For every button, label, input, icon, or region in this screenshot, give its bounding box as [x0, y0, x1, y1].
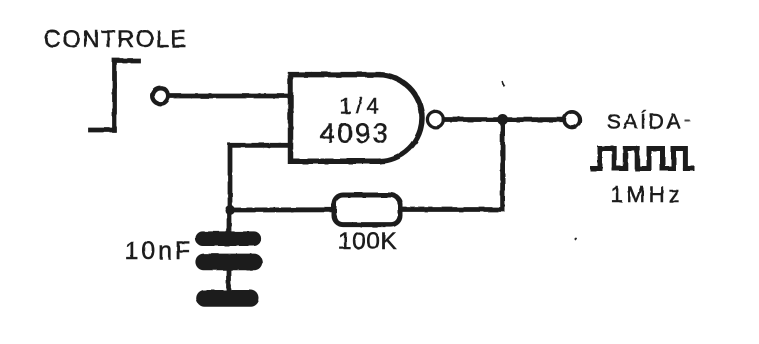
svg-text:10nF: 10nF: [125, 237, 194, 265]
svg-text:4093: 4093: [320, 118, 391, 149]
svg-text:100K: 100K: [338, 228, 397, 255]
svg-text:1MHz: 1MHz: [611, 182, 684, 207]
svg-text:SAÍDA: SAÍDA: [607, 111, 684, 134]
svg-text:CONTROLE: CONTROLE: [44, 26, 188, 53]
svg-text:1/4: 1/4: [340, 94, 383, 119]
